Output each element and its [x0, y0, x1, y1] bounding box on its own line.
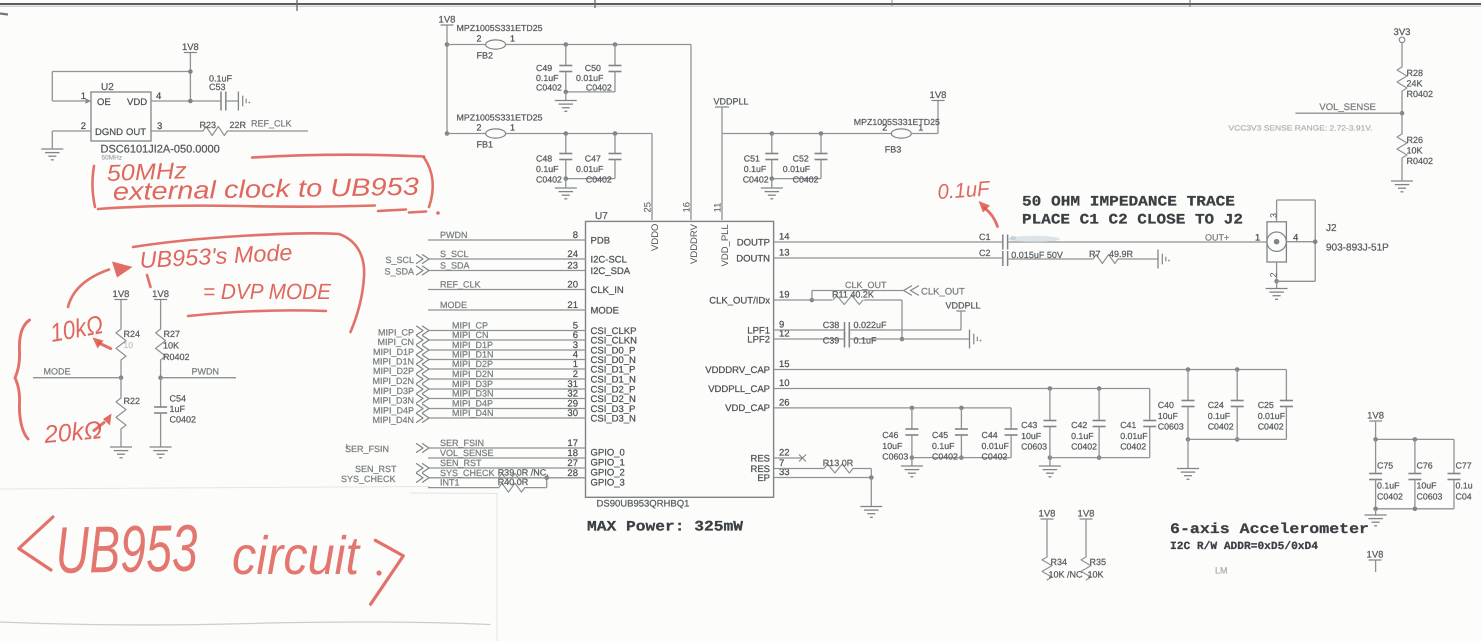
svg-text:R13 0R: R13 0R: [823, 458, 854, 468]
svg-text:MIPI_D3N: MIPI_D3N: [452, 389, 494, 399]
svg-text:MIPI_CN: MIPI_CN: [452, 330, 489, 340]
svg-text:50 OHM IMPEDANCE TRACE: 50 OHM IMPEDANCE TRACE: [1022, 195, 1235, 211]
svg-text:VDD_CAP: VDD_CAP: [725, 403, 770, 414]
svg-text:22R: 22R: [230, 120, 247, 130]
svg-text:C0402: C0402: [170, 415, 197, 425]
svg-text:C0402: C0402: [1258, 422, 1284, 432]
svg-text:C0402: C0402: [536, 83, 562, 93]
svg-text:1: 1: [918, 123, 923, 133]
svg-text:0.1u: 0.1u: [1456, 481, 1473, 491]
svg-text:19: 19: [779, 290, 790, 301]
svg-text:VDDO: VDDO: [650, 224, 661, 251]
svg-text:MIPI_CP: MIPI_CP: [452, 321, 488, 331]
svg-text:CLK_OUT: CLK_OUT: [921, 287, 965, 298]
svg-text:PWDN: PWDN: [192, 367, 220, 377]
svg-text:CLK_OUT/IDx: CLK_OUT/IDx: [709, 295, 770, 306]
svg-text:VCC3V3 SENSE RANGE: 2.72-3.91V: VCC3V3 SENSE RANGE: 2.72-3.91V.: [1229, 124, 1373, 133]
svg-text:VDD: VDD: [127, 97, 147, 108]
svg-text:C24: C24: [1208, 400, 1224, 410]
svg-text:C0402: C0402: [932, 452, 958, 462]
svg-text:10K: 10K: [163, 341, 179, 351]
svg-text:C54: C54: [170, 394, 187, 404]
svg-text:SYS_CHECK: SYS_CHECK: [440, 468, 495, 478]
svg-text:C0603: C0603: [1021, 442, 1047, 452]
svg-text:C0402: C0402: [982, 452, 1008, 462]
svg-text:1V8: 1V8: [113, 289, 130, 300]
svg-text:C0402: C0402: [586, 83, 612, 93]
svg-text:MIPI_D4P: MIPI_D4P: [452, 399, 493, 409]
svg-text:C48: C48: [536, 154, 552, 164]
svg-text:C2: C2: [979, 248, 991, 258]
svg-text:1V8: 1V8: [1078, 509, 1095, 520]
svg-text:DOUTP: DOUTP: [737, 237, 770, 248]
svg-text:C0603: C0603: [1417, 492, 1443, 502]
svg-text:VDDDRV: VDDDRV: [689, 223, 700, 264]
svg-text:PWDN: PWDN: [440, 230, 468, 240]
svg-text:R26: R26: [1407, 135, 1424, 145]
svg-text:903-893J-51P: 903-893J-51P: [1326, 243, 1389, 254]
svg-text:8: 8: [573, 230, 578, 241]
svg-text:10uF: 10uF: [1021, 431, 1042, 441]
svg-text:23: 23: [567, 261, 578, 272]
svg-text:MIPI_D4N: MIPI_D4N: [372, 415, 414, 425]
svg-text:REF_CLK: REF_CLK: [251, 119, 292, 129]
svg-text:UB953: UB953: [55, 511, 198, 587]
svg-text:C41: C41: [1120, 420, 1136, 430]
svg-text:VDDPLL_CAP: VDDPLL_CAP: [708, 384, 770, 395]
svg-text:11: 11: [713, 203, 724, 213]
svg-text:EP: EP: [757, 473, 770, 484]
svg-text:PDB: PDB: [591, 235, 611, 246]
svg-text:1V8: 1V8: [439, 15, 456, 26]
svg-text:C46: C46: [882, 430, 898, 440]
svg-text:24K: 24K: [1407, 79, 1423, 89]
svg-text:external clock to UB953: external clock to UB953: [113, 173, 420, 206]
svg-text:C39: C39: [823, 336, 840, 346]
svg-text:0.1uF: 0.1uF: [932, 441, 955, 451]
svg-text:MIPI_D1P: MIPI_D1P: [452, 340, 493, 350]
svg-text:= DVP MODE: = DVP MODE: [203, 279, 331, 304]
svg-text:C25: C25: [1258, 400, 1274, 410]
svg-text:C0402: C0402: [793, 175, 819, 185]
svg-text:R24: R24: [124, 329, 141, 339]
svg-text:DS90UB953QRHBQ1: DS90UB953QRHBQ1: [597, 499, 690, 510]
svg-text:10: 10: [124, 340, 134, 350]
svg-text:SER_FSIN: SER_FSIN: [440, 438, 484, 448]
svg-text:22: 22: [779, 448, 790, 459]
svg-text:10K: 10K: [1088, 570, 1104, 580]
svg-text:R39 0R /NC.: R39 0R /NC.: [498, 467, 549, 477]
svg-text:circuit: circuit: [232, 526, 361, 586]
svg-text:0.1uF: 0.1uF: [854, 336, 878, 346]
svg-text:R7: R7: [1089, 249, 1101, 259]
svg-text:MIPI_D1N: MIPI_D1N: [452, 350, 494, 360]
svg-text:CLK_IN: CLK_IN: [591, 285, 624, 296]
svg-text:MIPI_D2P: MIPI_D2P: [373, 366, 414, 376]
svg-text:C0402: C0402: [1377, 492, 1403, 502]
svg-text:1V8: 1V8: [1039, 509, 1056, 520]
svg-text:21: 21: [567, 300, 578, 311]
svg-text:MIPI_CN: MIPI_CN: [377, 337, 414, 347]
svg-text:20: 20: [567, 280, 578, 291]
svg-text:C1: C1: [979, 232, 991, 242]
svg-text:S_SCL: S_SCL: [385, 255, 414, 265]
svg-text:10K: 10K: [1407, 146, 1423, 156]
svg-text:0.01uF: 0.01uF: [783, 164, 811, 174]
svg-text:U2: U2: [101, 82, 114, 93]
svg-text:VDD_PLL: VDD_PLL: [720, 224, 731, 266]
svg-text:RES: RES: [750, 453, 770, 464]
svg-text:0.1uF: 0.1uF: [744, 164, 767, 174]
svg-text:4: 4: [1293, 233, 1298, 244]
svg-text:1uF: 1uF: [170, 404, 186, 414]
svg-text:1: 1: [510, 123, 515, 133]
svg-text:10uF: 10uF: [1158, 411, 1179, 421]
svg-text:2: 2: [477, 123, 482, 133]
svg-text:MIPI_D3P: MIPI_D3P: [452, 379, 493, 389]
svg-text:FB1: FB1: [477, 140, 494, 150]
svg-text:OUT: OUT: [126, 127, 146, 138]
svg-text:FB3: FB3: [885, 145, 902, 155]
svg-text:0.1uF: 0.1uF: [1377, 481, 1400, 491]
svg-text:C0402: C0402: [1208, 422, 1234, 432]
svg-text:VDDDRV_CAP: VDDDRV_CAP: [705, 365, 770, 376]
svg-text:1V8: 1V8: [182, 42, 199, 53]
svg-text:0.022uF: 0.022uF: [854, 320, 888, 330]
svg-text:1V8: 1V8: [1367, 550, 1384, 561]
svg-text:0.01uF: 0.01uF: [1258, 411, 1286, 421]
svg-text:0.1uF: 0.1uF: [1071, 431, 1094, 441]
svg-text:0.01uF: 0.01uF: [1120, 431, 1148, 441]
svg-text:2: 2: [1268, 272, 1278, 277]
svg-text:3: 3: [1268, 213, 1278, 218]
svg-text:DGND: DGND: [95, 127, 123, 138]
svg-text:R28: R28: [1407, 68, 1424, 78]
svg-text:C49: C49: [536, 63, 552, 73]
svg-text:R0402: R0402: [1407, 89, 1434, 99]
svg-text:R11 40.2K: R11 40.2K: [832, 290, 874, 300]
svg-text:S_SDA: S_SDA: [440, 261, 470, 271]
svg-text:I2C_SDA: I2C_SDA: [591, 266, 631, 277]
svg-text:I2C-SCL: I2C-SCL: [591, 254, 627, 265]
svg-text:C0402: C0402: [586, 175, 612, 185]
svg-text:1: 1: [1255, 233, 1260, 244]
svg-text:J2: J2: [1326, 223, 1337, 234]
svg-text:C0603: C0603: [1158, 422, 1184, 432]
svg-text:MIPI_CP: MIPI_CP: [378, 328, 414, 338]
svg-text:30: 30: [567, 408, 578, 419]
svg-text:MIPI_D2P: MIPI_D2P: [452, 359, 493, 369]
svg-text:0.01uF: 0.01uF: [576, 164, 604, 174]
svg-text:10: 10: [779, 378, 790, 389]
svg-text:MIPI_D2N: MIPI_D2N: [452, 369, 494, 379]
svg-text:MODE: MODE: [440, 300, 467, 310]
svg-text:25: 25: [643, 202, 654, 213]
svg-text:10uF: 10uF: [1417, 481, 1438, 491]
svg-text:24: 24: [567, 249, 578, 260]
svg-text:R0402: R0402: [163, 352, 190, 362]
svg-text:13: 13: [779, 248, 790, 259]
svg-text:0.01uF: 0.01uF: [576, 73, 604, 83]
svg-text:OUT+: OUT+: [1205, 233, 1229, 243]
svg-text:C53: C53: [209, 82, 226, 92]
svg-text:S_SDA: S_SDA: [384, 267, 414, 277]
svg-text:3V3: 3V3: [1394, 27, 1411, 38]
svg-text:0.01uF: 0.01uF: [982, 441, 1010, 451]
svg-text:LM: LM: [1215, 566, 1228, 576]
svg-text:26: 26: [779, 397, 790, 408]
svg-text:C0402: C0402: [1071, 442, 1097, 452]
svg-text:49.9R: 49.9R: [1109, 249, 1134, 259]
svg-text:C0402: C0402: [1120, 442, 1146, 452]
svg-text:MPZ1005S331ETD25: MPZ1005S331ETD25: [457, 23, 543, 33]
svg-text:VOL_SENSE: VOL_SENSE: [440, 448, 494, 458]
svg-text:C76: C76: [1417, 461, 1433, 471]
svg-text:1: 1: [510, 34, 515, 44]
svg-text:LPF2: LPF2: [747, 334, 770, 345]
svg-text:0.1uF: 0.1uF: [536, 164, 559, 174]
svg-text:MPZ1005S331ETD25: MPZ1005S331ETD25: [854, 117, 940, 127]
svg-text:S_SCL: S_SCL: [440, 249, 469, 259]
svg-text:MIPI_D4N: MIPI_D4N: [452, 408, 494, 418]
svg-text:OE: OE: [97, 97, 111, 108]
svg-text:MIPI_D4P: MIPI_D4P: [373, 406, 414, 416]
svg-text:C0402: C0402: [743, 175, 769, 185]
svg-text:MPZ1005S331ETD25: MPZ1005S331ETD25: [457, 113, 543, 123]
svg-text:C40: C40: [1158, 400, 1174, 410]
svg-text:1V8: 1V8: [1367, 411, 1384, 422]
svg-text:C42: C42: [1071, 420, 1087, 430]
svg-text:C45: C45: [932, 430, 948, 440]
svg-text:MIPI_D3P: MIPI_D3P: [373, 386, 414, 396]
svg-text:I2C R/W ADDR=0xD5/0xD4: I2C R/W ADDR=0xD5/0xD4: [1170, 541, 1318, 553]
svg-text:CSI_D3_N: CSI_D3_N: [591, 413, 637, 424]
svg-text:R35: R35: [1090, 557, 1107, 567]
svg-text:20kΩ: 20kΩ: [42, 416, 103, 449]
svg-text:C50: C50: [585, 63, 601, 73]
svg-text:R22: R22: [124, 396, 141, 406]
svg-text:DOUTN: DOUTN: [736, 253, 770, 264]
svg-text:10uF: 10uF: [882, 441, 903, 451]
svg-text:14: 14: [779, 232, 790, 243]
svg-text:SYS_CHECK: SYS_CHECK: [341, 474, 396, 484]
svg-text:2: 2: [882, 123, 887, 133]
svg-text:0.1uF: 0.1uF: [536, 73, 559, 83]
svg-text:10K /NC: 10K /NC: [1049, 570, 1084, 580]
svg-text:R23: R23: [200, 120, 217, 130]
svg-text:VDDPLL: VDDPLL: [713, 97, 748, 107]
svg-text:C0402: C0402: [536, 175, 562, 185]
svg-text:C43: C43: [1021, 420, 1037, 430]
svg-text:VOL_SENSE: VOL_SENSE: [1319, 102, 1376, 113]
svg-text:16: 16: [682, 202, 693, 213]
svg-text:0.1uF: 0.1uF: [1208, 411, 1231, 421]
svg-text:C44: C44: [982, 430, 998, 440]
svg-text:MIPI_D1N: MIPI_D1N: [372, 357, 414, 367]
svg-text:MODE: MODE: [44, 367, 71, 377]
svg-text:PLACE C1 C2 CLOSE TO J2: PLACE C1 C2 CLOSE TO J2: [1022, 213, 1243, 229]
svg-text:0.1uF: 0.1uF: [937, 177, 992, 204]
svg-text:INT1: INT1: [440, 478, 460, 488]
svg-text:15: 15: [779, 359, 790, 370]
svg-text:CLK_OUT: CLK_OUT: [845, 280, 887, 290]
svg-text:GPIO_3: GPIO_3: [591, 477, 625, 488]
svg-text:MAX Power: 325mW: MAX Power: 325mW: [587, 520, 743, 536]
svg-text:MIPI_D2N: MIPI_D2N: [372, 376, 414, 386]
svg-text:C75: C75: [1377, 461, 1393, 471]
svg-text:1V8: 1V8: [930, 90, 947, 101]
svg-text:R0402: R0402: [1407, 156, 1434, 166]
svg-text:C77: C77: [1456, 461, 1472, 471]
svg-text:0.015uF 50V: 0.015uF 50V: [1011, 250, 1063, 260]
svg-text:1V8: 1V8: [152, 289, 169, 300]
svg-text:MIPI_D3N: MIPI_D3N: [372, 396, 414, 406]
svg-text:R27: R27: [164, 329, 181, 339]
svg-text:SER_FSIN: SER_FSIN: [345, 444, 389, 454]
svg-text:VDDPLL: VDDPLL: [945, 301, 980, 311]
svg-text:U7: U7: [595, 211, 608, 222]
svg-text:C51: C51: [744, 154, 760, 164]
svg-text:6-axis Accelerometer: 6-axis Accelerometer: [1170, 522, 1369, 538]
svg-text:2: 2: [477, 34, 482, 44]
svg-text:R34: R34: [1051, 557, 1068, 567]
svg-text:C0603: C0603: [882, 452, 908, 462]
svg-text:C47: C47: [585, 154, 601, 164]
svg-text:FB2: FB2: [477, 51, 494, 61]
svg-text:C38: C38: [823, 320, 840, 330]
svg-text:MODE: MODE: [591, 305, 620, 316]
svg-text:28: 28: [567, 468, 578, 479]
svg-text:SEN_RST: SEN_RST: [355, 464, 397, 474]
svg-text:C52: C52: [793, 154, 809, 164]
svg-text:C04: C04: [1456, 492, 1472, 502]
svg-text:SEN_RST: SEN_RST: [440, 458, 482, 468]
svg-text:MIPI_D1P: MIPI_D1P: [373, 347, 414, 357]
svg-text:REF_CLK: REF_CLK: [440, 280, 481, 290]
